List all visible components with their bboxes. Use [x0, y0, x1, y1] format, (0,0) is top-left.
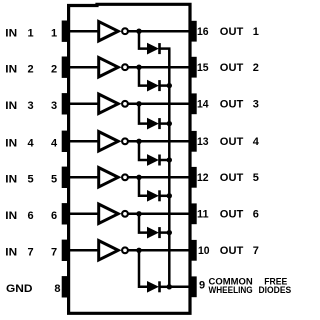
- wire rail to pin 9: [169, 286, 190, 289]
- svg-text:15: 15: [197, 62, 209, 74]
- svg-text:GND: GND: [6, 283, 33, 295]
- inverter U3: [99, 94, 128, 113]
- pin 13: [190, 131, 196, 152]
- inverter U7: [99, 241, 128, 260]
- svg-text:4: 4: [253, 136, 260, 148]
- svg-text:6: 6: [253, 208, 259, 220]
- pin 15: [190, 57, 196, 78]
- wire node 7 down to diode D7 anode: [139, 250, 148, 286]
- svg-text:IN: IN: [5, 174, 17, 186]
- wire pin 4 to inverter U4 input: [67, 140, 99, 143]
- node rail junction D3: [167, 121, 172, 126]
- svg-text:1: 1: [51, 27, 57, 39]
- wire inverter U4 output to pin 13: [128, 140, 190, 143]
- svg-text:4: 4: [51, 138, 58, 150]
- svg-text:6: 6: [28, 210, 34, 222]
- wire pin 7 to inverter U7 input: [67, 249, 99, 252]
- svg-text:OUT: OUT: [220, 172, 244, 184]
- wire node 1 down to diode D1 anode: [139, 31, 148, 48]
- inverter U1: [99, 22, 128, 41]
- wire diode D2 cathode to common rail: [160, 84, 171, 87]
- pin 6: [62, 203, 69, 224]
- inverter U2: [99, 58, 128, 77]
- wire node 5 down to diode D5 anode: [139, 177, 148, 196]
- svg-text:OUT: OUT: [220, 245, 244, 257]
- node output junction 7: [136, 248, 141, 253]
- diode D3: [147, 118, 159, 129]
- svg-text:10: 10: [198, 245, 210, 257]
- pin 12: [190, 167, 196, 188]
- pin 9: [190, 276, 196, 297]
- wire pin 5 to inverter U5 input: [67, 176, 99, 179]
- node rail junction D4: [167, 157, 172, 162]
- svg-text:6: 6: [51, 210, 57, 222]
- svg-text:3: 3: [253, 98, 259, 110]
- svg-text:5: 5: [51, 174, 57, 186]
- inverter U4: [99, 132, 128, 151]
- svg-text:3: 3: [28, 100, 34, 112]
- svg-text:9: 9: [199, 279, 205, 291]
- node output junction 6: [136, 211, 141, 216]
- wire diode D5 cathode to common rail: [160, 195, 171, 198]
- node rail junction D6: [167, 230, 172, 235]
- wire inverter U5 output to pin 12: [128, 176, 190, 179]
- svg-text:2: 2: [253, 62, 259, 74]
- wire inverter U7 output to pin 10: [128, 249, 190, 252]
- wire pin 3 to inverter U3 input: [67, 103, 99, 106]
- svg-text:IN: IN: [5, 247, 17, 259]
- inverter U6: [99, 204, 128, 223]
- svg-text:7: 7: [28, 247, 34, 259]
- pin 5: [62, 167, 69, 188]
- node output junction 1: [136, 29, 141, 34]
- wire pin 2 to inverter U2 input: [67, 66, 99, 69]
- wire diode D4 cathode to common rail: [160, 159, 171, 162]
- diode D1: [147, 43, 159, 54]
- svg-text:OUT: OUT: [220, 136, 244, 148]
- pin 14: [190, 93, 196, 114]
- svg-text:OUT: OUT: [220, 98, 244, 110]
- svg-text:16: 16: [197, 26, 209, 38]
- svg-text:IN: IN: [5, 100, 17, 112]
- svg-text:7: 7: [51, 247, 57, 259]
- wire node 3 down to diode D3 anode: [139, 104, 148, 124]
- pin 8: [62, 276, 69, 297]
- node output junction 5: [136, 175, 141, 180]
- wire node 6 down to diode D6 anode: [139, 214, 148, 233]
- svg-text:8: 8: [54, 283, 60, 295]
- inverter U5: [99, 168, 128, 187]
- svg-text:OUT: OUT: [220, 208, 244, 220]
- wire diode D1 cathode to common rail: [160, 47, 171, 50]
- wire diode D6 cathode to common rail: [160, 231, 171, 234]
- wire inverter U1 output to pin 16: [128, 30, 190, 33]
- svg-text:IN: IN: [5, 27, 17, 39]
- pin 4: [62, 131, 69, 152]
- node output junction 3: [136, 101, 141, 106]
- svg-text:1: 1: [253, 26, 259, 38]
- svg-text:2: 2: [51, 63, 57, 75]
- svg-text:1: 1: [28, 27, 34, 39]
- pin 16: [190, 21, 196, 42]
- svg-text:14: 14: [197, 98, 209, 110]
- wire inverter U2 output to pin 15: [128, 66, 190, 69]
- svg-text:IN: IN: [5, 63, 17, 75]
- svg-text:13: 13: [197, 136, 209, 148]
- svg-text:OUT: OUT: [220, 26, 244, 38]
- wire diode D7 cathode to common rail: [160, 286, 171, 289]
- wire inverter U3 output to pin 14: [128, 103, 190, 106]
- pin 1: [62, 21, 69, 42]
- svg-text:IN: IN: [5, 138, 17, 150]
- pin 3: [62, 93, 69, 114]
- svg-text:IN: IN: [5, 210, 17, 222]
- svg-text:5: 5: [253, 172, 259, 184]
- IC body outline: [69, 4, 190, 313]
- wire diode D3 cathode to common rail: [160, 122, 171, 125]
- node rail junction D5: [167, 193, 172, 198]
- wire pin 1 to inverter U1 input: [67, 30, 99, 33]
- svg-text:12: 12: [197, 172, 209, 184]
- svg-text:DIODES: DIODES: [259, 285, 292, 295]
- svg-text:4: 4: [28, 138, 35, 150]
- svg-text:11: 11: [197, 208, 209, 220]
- node output junction 4: [136, 139, 141, 144]
- wire pin 6 to inverter U6 input: [67, 213, 99, 216]
- common free wheeling diode rail: [168, 49, 171, 287]
- diode D4: [147, 155, 159, 166]
- svg-text:3: 3: [51, 100, 57, 112]
- diode D7: [147, 281, 159, 292]
- pin 7: [62, 240, 69, 261]
- label COMMON FREE WHEELING DIODES: [209, 276, 292, 294]
- diode D5: [147, 190, 159, 201]
- wire inverter U6 output to pin 11: [128, 213, 190, 216]
- svg-text:WHEELING: WHEELING: [209, 285, 253, 295]
- diode D6: [147, 227, 159, 238]
- svg-text:7: 7: [253, 245, 259, 257]
- diode D2: [147, 80, 159, 91]
- wire node 4 down to diode D4 anode: [139, 141, 148, 160]
- pin 11: [190, 203, 196, 224]
- pin 10: [190, 240, 196, 261]
- svg-text:5: 5: [28, 174, 34, 186]
- node output junction 2: [136, 65, 141, 70]
- node rail junction D2: [167, 83, 172, 88]
- wire node 2 down to diode D2 anode: [139, 67, 148, 85]
- svg-text:OUT: OUT: [220, 62, 244, 74]
- pin 2: [62, 57, 69, 78]
- svg-text:2: 2: [28, 63, 34, 75]
- node rail junction D7: [167, 284, 172, 289]
